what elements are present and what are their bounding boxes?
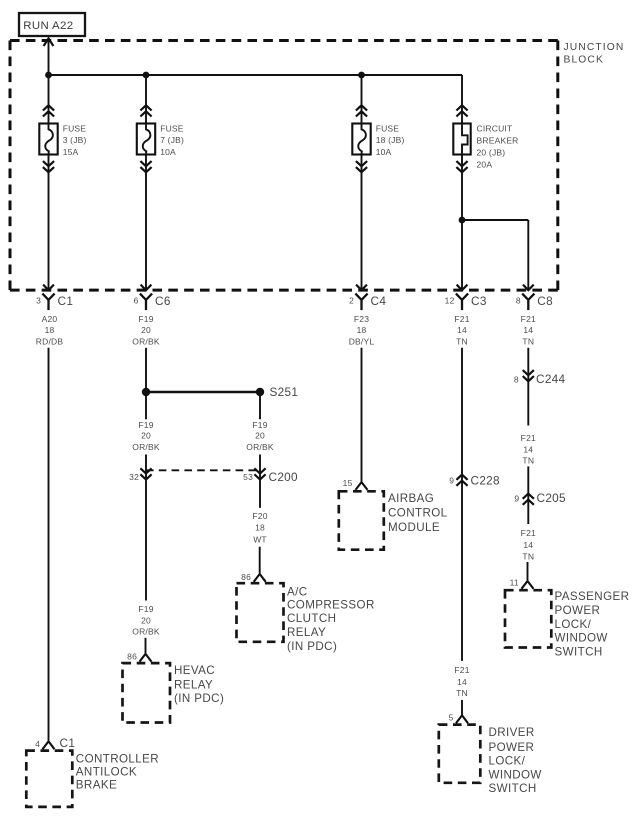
svg-text:10A: 10A [376,147,392,157]
wire to controller antilock brake [43,348,55,749]
svg-text:14: 14 [523,444,533,454]
svg-text:11: 11 [510,578,519,588]
connector C244 pin 8 [514,372,566,386]
wire F21 14 TN label (passenger) [521,528,536,561]
pin 86 A/C relay [241,572,251,582]
svg-text:2: 2 [349,295,354,305]
svg-text:4: 4 [35,739,40,749]
wire into driver switch pin 5 [456,700,468,723]
svg-text:S251: S251 [270,385,299,399]
svg-text:14: 14 [457,677,467,687]
svg-text:LOCK/: LOCK/ [489,755,526,768]
wire F21 14 TN label (below C244) [521,433,536,465]
connector C205 pin 9 [514,491,566,505]
svg-text:TN: TN [522,337,534,347]
svg-text:F21: F21 [521,433,536,443]
junction block outline [10,41,624,291]
svg-text:F21: F21 [521,528,536,538]
svg-text:53: 53 [243,472,253,482]
svg-text:9: 9 [449,476,454,486]
svg-text:86: 86 [241,572,251,582]
airbag control module [339,491,448,549]
svg-text:RELAY: RELAY [287,626,326,639]
wire S251 right branch [259,392,261,419]
svg-text:PASSENGER: PASSENGER [555,590,630,603]
circuit breaker CB20(JB) 20A [453,123,518,169]
svg-text:F21: F21 [454,665,469,675]
svg-text:20: 20 [141,325,151,335]
wire into passenger switch pin 11 [522,562,534,589]
svg-text:C4: C4 [371,294,387,308]
wire bus to fuse col2 [140,75,151,124]
svg-text:3: 3 [36,295,41,305]
wire bus to fuse col1 [43,75,54,124]
wire C8 through C244 [523,348,534,426]
junction dot col3 [358,72,365,79]
wire F21 14 TN label (driver) [454,665,469,698]
svg-text:C228: C228 [471,473,501,487]
wire C6 to S251 [145,348,147,392]
svg-text:TN: TN [456,688,468,698]
svg-text:F19: F19 [138,420,153,430]
svg-text:5: 5 [449,712,454,722]
svg-text:20: 20 [255,431,265,441]
wire into C200 pin 32 [140,455,151,601]
svg-text:TN: TN [522,552,534,562]
wire F19 20 OR/BK label (C6) [132,314,160,347]
svg-text:FUSE: FUSE [376,124,400,134]
svg-text:3 (JB): 3 (JB) [63,135,87,145]
svg-text:A20: A20 [42,314,58,324]
wire C3 to driver switch through C228 [456,348,467,661]
svg-text:WINDOW: WINDOW [489,768,542,781]
connector C1 pin 3 [36,294,73,311]
wire branch to C8 [462,220,534,290]
node RUN A22 feed [19,13,85,36]
svg-text:SWITCH: SWITCH [489,782,537,795]
fuse F18(JB) 10A [352,124,404,157]
wire bus to fuse col4 [456,75,467,124]
wire C4 to airbag module [356,348,368,490]
svg-text:OR/BK: OR/BK [246,442,274,452]
wire fuse col3 to connector [356,155,367,291]
svg-text:12: 12 [445,295,455,305]
wire fuse col4 to connector [456,155,467,291]
wire F19 20 OR/BK label (HEVAC) [132,604,160,637]
fuse F7(JB) 10A [137,124,184,157]
wire bus to fuse col3 [356,75,367,124]
splice S251 [142,385,298,399]
svg-text:C8: C8 [537,294,553,308]
svg-text:C6: C6 [155,294,171,308]
svg-text:F23: F23 [354,314,369,324]
svg-text:OR/BK: OR/BK [132,627,160,637]
svg-text:20A: 20A [477,160,493,170]
svg-text:CONTROLLER: CONTROLLER [76,753,159,766]
svg-text:RUN A22: RUN A22 [23,20,73,32]
wire through C205 [523,466,534,524]
svg-text:JUNCTION: JUNCTION [564,42,625,53]
svg-text:14: 14 [523,325,533,335]
junction dot col2 [143,72,150,79]
svg-text:C244: C244 [536,372,566,386]
svg-text:HEVAC: HEVAC [174,664,215,677]
passenger power lock/window switch [505,590,629,658]
svg-text:F19: F19 [138,314,153,324]
wire F19 20 OR/BK label (left of C200) [132,420,160,452]
svg-text:C3: C3 [471,294,487,308]
svg-text:DB/YL: DB/YL [349,337,375,347]
svg-text:18: 18 [45,325,55,335]
wire F21 14 TN label (C3) [454,314,469,347]
svg-text:TN: TN [456,337,468,347]
svg-text:ANTILOCK: ANTILOCK [76,765,137,778]
svg-text:RD/DB: RD/DB [36,337,64,347]
svg-text:F21: F21 [521,314,536,324]
svg-text:C200: C200 [269,470,299,484]
svg-text:CLUTCH: CLUTCH [287,612,336,625]
svg-text:F19: F19 [138,604,153,614]
svg-text:14: 14 [523,540,533,550]
svg-text:POWER: POWER [489,741,535,754]
A/C compressor clutch relay (in PDC) [237,583,375,653]
svg-text:32: 32 [129,472,139,482]
connector C200 [129,470,298,484]
wire F21 14 TN label (C8) [521,314,536,347]
svg-text:DRIVER: DRIVER [489,726,535,739]
junction dot col1 [45,72,52,79]
svg-text:SWITCH: SWITCH [555,645,603,658]
svg-text:8: 8 [514,374,519,384]
svg-text:10A: 10A [160,147,176,157]
svg-text:MODULE: MODULE [388,521,440,534]
svg-text:15: 15 [343,478,353,488]
svg-text:TN: TN [522,455,534,465]
svg-text:COMPRESSOR: COMPRESSOR [287,599,375,612]
svg-text:OR/BK: OR/BK [132,442,160,452]
pin 5 driver switch [449,712,454,722]
svg-text:C205: C205 [537,491,567,505]
connector C4 pin 2 [349,294,386,311]
svg-text:86: 86 [127,652,137,662]
wire A20 18 RD/DB label [36,314,64,347]
wire into C200 pin 53 [254,455,265,508]
svg-text:20: 20 [141,616,151,626]
svg-text:14: 14 [457,325,467,335]
wire F20 18 WT label [252,511,267,544]
svg-text:BLOCK: BLOCK [564,55,604,66]
svg-text:F21: F21 [454,314,469,324]
svg-text:9: 9 [514,493,519,503]
wire to A/C relay pin 86 [254,547,266,582]
svg-text:20: 20 [141,431,151,441]
fuse F3(JB) 15A [39,124,86,157]
svg-text:RELAY: RELAY [174,679,213,692]
svg-text:18: 18 [357,325,367,335]
connector C6 pin 6 [134,294,171,311]
svg-text:C1: C1 [60,736,76,750]
svg-text:15A: 15A [63,147,79,157]
svg-text:(IN PDC): (IN PDC) [287,640,337,653]
wire bus [49,74,463,76]
connector C8 pin 8 [516,294,553,311]
svg-text:8: 8 [516,295,521,305]
svg-text:C1: C1 [58,294,74,308]
svg-text:OR/BK: OR/BK [132,337,160,347]
pin 86 HEVAC [127,652,137,662]
wire fuse col2 to connector [140,155,151,291]
wire fuse col1 to connector [43,155,54,291]
svg-text:FUSE: FUSE [63,124,87,134]
pin 15 airbag [343,478,353,488]
wire RUN A22 to bus [44,38,54,75]
svg-text:6: 6 [134,295,139,305]
svg-text:CONTROL: CONTROL [388,507,448,520]
svg-text:20 (JB): 20 (JB) [477,148,506,158]
svg-text:POWER: POWER [555,604,601,617]
wire S251 left branch [145,392,147,419]
connector C3 pin 12 [445,294,487,311]
wire to HEVAC relay pin 86 [140,638,152,662]
wire F19 20 OR/BK label (right of C200) [246,420,274,452]
svg-text:FUSE: FUSE [160,124,184,134]
svg-text:A/C: A/C [287,585,308,598]
svg-text:WINDOW: WINDOW [555,632,608,645]
svg-text:BRAKE: BRAKE [76,779,117,792]
svg-text:18: 18 [255,523,265,533]
svg-text:WT: WT [253,534,267,544]
junction dot col4 branch [459,217,466,224]
svg-text:BREAKER: BREAKER [477,135,519,145]
pin 11 passenger switch [510,578,519,588]
connector C228 pin 9 [449,473,500,487]
svg-text:F19: F19 [252,420,267,430]
svg-text:CIRCUIT: CIRCUIT [477,123,513,133]
svg-text:AIRBAG: AIRBAG [388,492,434,505]
pin 4 / C1 controller [35,736,75,750]
svg-text:7 (JB): 7 (JB) [160,135,184,145]
svg-text:F20: F20 [252,511,267,521]
driver power lock/window switch [439,725,542,796]
controller antilock brake [26,751,159,807]
HEVAC relay (in PDC) [123,663,225,722]
svg-text:LOCK/: LOCK/ [555,618,592,631]
wire F23 18 DB/YL label [349,314,375,347]
svg-text:(IN PDC): (IN PDC) [174,692,224,705]
svg-text:18 (JB): 18 (JB) [376,135,405,145]
